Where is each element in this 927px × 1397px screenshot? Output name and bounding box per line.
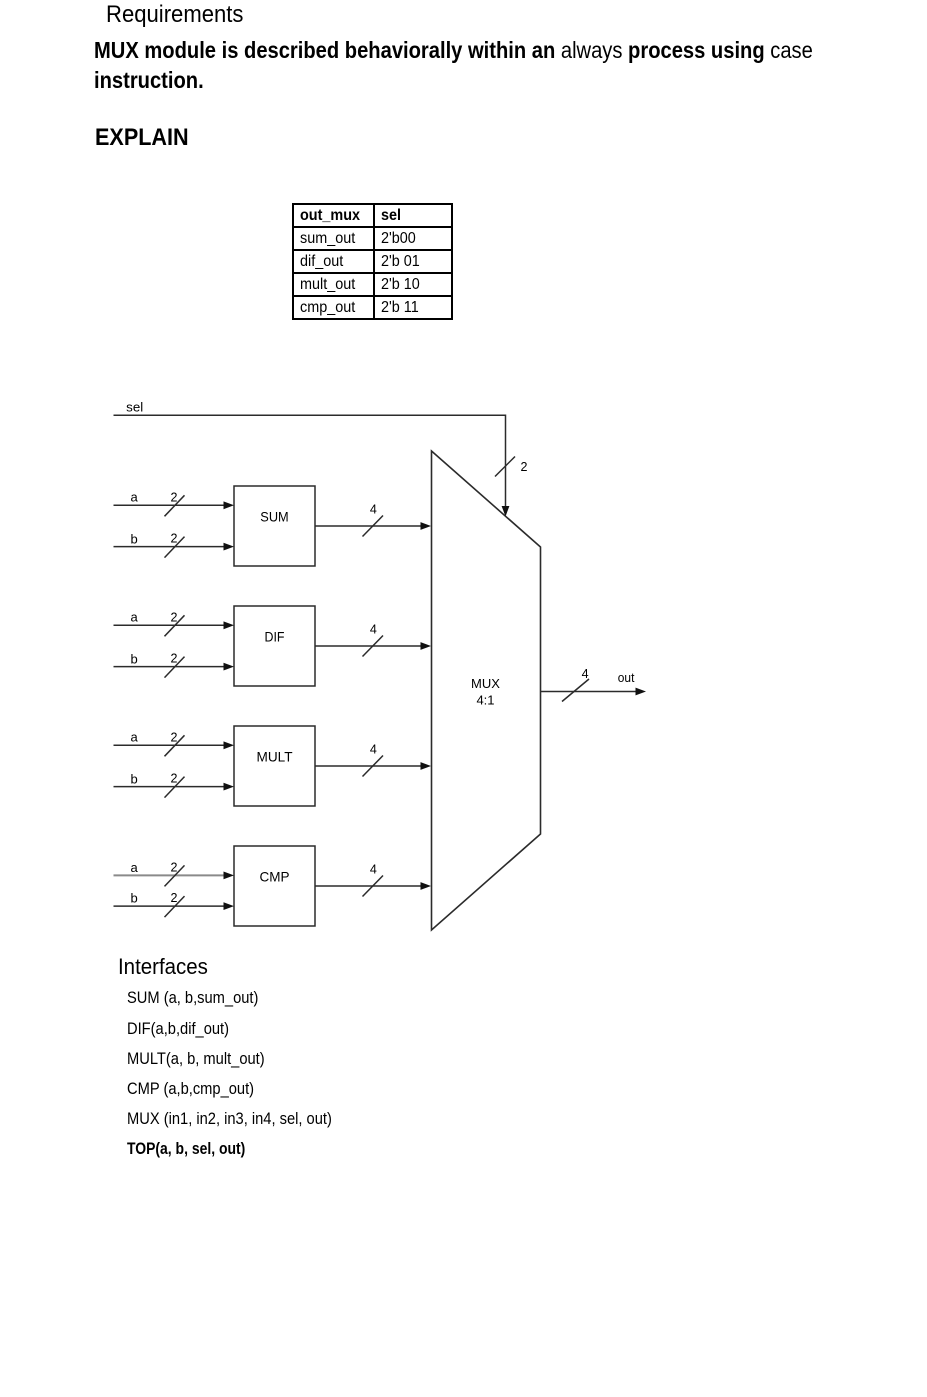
heading Requirements: [106, 1, 243, 29]
wire b into SUM: [114, 546, 226, 548]
arrowhead b DIF: [224, 663, 235, 671]
bus slash DIF output: [363, 636, 384, 657]
svg-text:2: 2: [171, 861, 178, 875]
interface list: [127, 989, 258, 1008]
svg-text:4: 4: [370, 622, 377, 636]
svg-text:a: a: [131, 860, 139, 875]
wire b into CMP: [114, 905, 226, 907]
svg-text:2: 2: [171, 490, 178, 504]
bus slash a DIF: [165, 615, 185, 636]
arrowhead a MULT: [224, 741, 235, 749]
block SUM: [234, 486, 315, 566]
block MULT: [234, 726, 315, 806]
bus slash b SUM: [165, 537, 185, 558]
svg-text:2: 2: [521, 460, 528, 474]
svg-text:4: 4: [370, 502, 377, 516]
wire b into DIF: [114, 666, 226, 668]
svg-text:a: a: [131, 489, 139, 504]
svg-text:sel: sel: [126, 400, 143, 415]
arrowhead DIF output: [421, 642, 432, 650]
bus slash MULT output: [363, 756, 384, 777]
arrowhead a DIF: [224, 621, 235, 629]
table out_mux / sel: [292, 203, 453, 320]
svg-text:2: 2: [171, 652, 178, 666]
heading Interfaces: [118, 954, 208, 980]
bus slash a MULT: [165, 735, 185, 756]
svg-text:b: b: [131, 772, 138, 787]
wire a into DIF: [114, 624, 226, 626]
arrowhead MULT output: [421, 762, 432, 770]
block DIF: [234, 606, 315, 686]
heading EXPLAIN: [95, 124, 189, 152]
bus slash sel: [495, 457, 515, 477]
arrowhead b CMP: [224, 902, 235, 910]
svg-text:SUM: SUM: [260, 509, 288, 525]
svg-text:4:1: 4:1: [476, 693, 494, 708]
bus slash b DIF: [165, 657, 185, 678]
svg-text:CMP: CMP: [260, 869, 290, 885]
svg-text:DIF: DIF: [265, 629, 285, 645]
bus slash CMP output: [363, 876, 384, 897]
bus slash a SUM: [165, 495, 185, 516]
svg-text:4: 4: [582, 667, 589, 681]
bus slash a CMP: [165, 865, 185, 886]
bus slash b CMP: [165, 896, 185, 917]
wire a into MULT: [114, 744, 226, 746]
svg-text:b: b: [131, 532, 138, 547]
wire MULT output to MUX: [315, 765, 422, 767]
paragraph MUX module description: [94, 35, 813, 95]
svg-text:4: 4: [370, 862, 377, 876]
arrowhead b SUM: [224, 543, 235, 551]
arrowhead sel into MUX: [502, 506, 510, 517]
arrowhead SUM output: [421, 522, 432, 530]
arrowhead out: [636, 688, 647, 696]
bus slash b MULT: [165, 777, 185, 798]
svg-text:out: out: [618, 670, 635, 685]
arrowhead b MULT: [224, 783, 235, 791]
wire sel net: [114, 415, 506, 507]
arrowhead a SUM: [224, 501, 235, 509]
bus slash out: [562, 679, 589, 702]
bus slash SUM output: [363, 516, 384, 537]
svg-text:2: 2: [171, 891, 178, 905]
wire SUM output to MUX: [315, 525, 422, 527]
wire CMP output to MUX: [315, 885, 422, 887]
svg-text:4: 4: [370, 742, 377, 756]
block CMP: [234, 846, 315, 926]
wire MUX output out: [541, 691, 638, 693]
svg-text:a: a: [131, 609, 139, 624]
svg-text:b: b: [131, 652, 138, 667]
wire DIF output to MUX: [315, 645, 422, 647]
MUX 4:1 trapezoid: [432, 451, 541, 930]
svg-text:MUX: MUX: [471, 676, 500, 691]
wire a into CMP (gray): [114, 874, 226, 876]
svg-text:MULT: MULT: [257, 749, 293, 765]
svg-text:2: 2: [171, 610, 178, 624]
svg-text:2: 2: [171, 730, 178, 744]
svg-text:a: a: [131, 729, 139, 744]
arrowhead a CMP: [224, 872, 235, 880]
svg-text:2: 2: [171, 532, 178, 546]
wire b into MULT: [114, 786, 226, 788]
arrowhead CMP output: [421, 882, 432, 890]
svg-text:2: 2: [171, 772, 178, 786]
svg-text:b: b: [131, 891, 138, 906]
wire a into SUM: [114, 504, 226, 506]
